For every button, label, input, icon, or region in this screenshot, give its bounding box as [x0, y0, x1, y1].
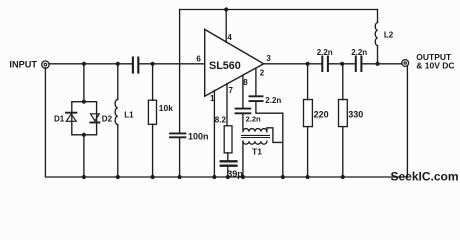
- svg-text:6: 6: [196, 55, 201, 64]
- svg-text:& 10V DC: & 10V DC: [416, 61, 454, 71]
- svg-text:2.2n: 2.2n: [265, 96, 281, 105]
- svg-text:SeekIC.com: SeekIC.com: [391, 170, 459, 184]
- svg-text:8.2: 8.2: [215, 116, 227, 125]
- svg-text:4: 4: [227, 33, 232, 42]
- svg-text:SL560: SL560: [209, 60, 241, 72]
- svg-text:L1: L1: [124, 111, 134, 120]
- svg-text:D2: D2: [102, 114, 113, 123]
- svg-text:2.2n: 2.2n: [351, 48, 367, 57]
- svg-text:39p: 39p: [227, 169, 243, 179]
- svg-text:L2: L2: [384, 31, 394, 40]
- svg-text:2: 2: [260, 69, 265, 78]
- svg-text:100n: 100n: [188, 131, 209, 141]
- svg-text:330: 330: [348, 110, 363, 120]
- svg-text:2.2n: 2.2n: [246, 114, 261, 123]
- svg-text:7: 7: [229, 86, 234, 95]
- svg-text:8: 8: [243, 78, 248, 87]
- svg-text:INPUT: INPUT: [9, 60, 37, 70]
- svg-text:220: 220: [314, 110, 329, 120]
- svg-text:T1: T1: [252, 146, 262, 156]
- svg-text:3: 3: [266, 54, 271, 63]
- svg-text:2.2n: 2.2n: [317, 48, 333, 57]
- svg-text:1: 1: [210, 94, 215, 103]
- svg-text:10k: 10k: [159, 103, 173, 113]
- svg-text:D1: D1: [54, 114, 65, 123]
